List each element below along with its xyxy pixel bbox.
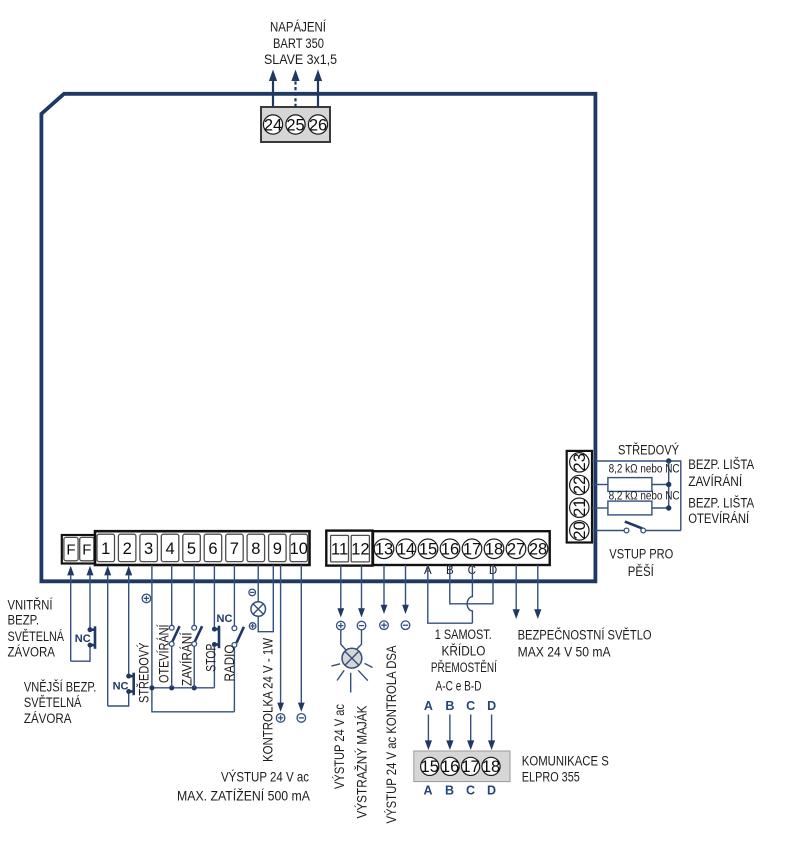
svg-text:17: 17 bbox=[463, 541, 481, 559]
label NAPÁJENÍ BART 350 SLAVE 3x1,5 bbox=[264, 20, 337, 68]
svg-text:11: 11 bbox=[331, 541, 348, 559]
svg-text:ZAVÍRÁNÍ: ZAVÍRÁNÍ bbox=[688, 474, 742, 489]
wire terminal 27 bezpečnostní světlo bbox=[513, 565, 520, 619]
svg-text:BART 350: BART 350 bbox=[273, 36, 324, 51]
label VÝSTUP 24 V ac / MAX. ZATÍŽENÍ 500 mA bbox=[177, 769, 310, 803]
svg-text:NC: NC bbox=[75, 633, 91, 645]
svg-text:KŘÍDLO: KŘÍDLO bbox=[442, 644, 486, 659]
svg-text:RADIO: RADIO bbox=[222, 645, 237, 682]
svg-text:D: D bbox=[487, 699, 496, 713]
svg-text:ZÁVORA: ZÁVORA bbox=[24, 711, 72, 726]
svg-text:6: 6 bbox=[208, 540, 217, 558]
svg-text:KOMUNIKACE S: KOMUNIKACE S bbox=[522, 754, 609, 769]
svg-text:PŘEMOSTĚNÍ: PŘEMOSTĚNÍ bbox=[431, 660, 497, 675]
wire terminal 12 to maják minus bbox=[356, 566, 366, 651]
svg-text:3: 3 bbox=[144, 540, 153, 558]
terminal 25 bbox=[286, 115, 305, 134]
lamp výstražný maják bbox=[331, 648, 372, 692]
svg-text:VÝSTUP 24 V ac: VÝSTUP 24 V ac bbox=[221, 769, 309, 784]
svg-text:STŘEDOVÝ: STŘEDOVÝ bbox=[137, 643, 152, 704]
svg-text:KONTROLKA 24 V - 1W: KONTROLKA 24 V - 1W bbox=[260, 638, 275, 762]
svg-text:ELPRO 355: ELPRO 355 bbox=[522, 770, 580, 785]
svg-text:VÝSTUP 24 V ac KONTROLA DSA: VÝSTUP 24 V ac KONTROLA DSA bbox=[384, 646, 399, 824]
svg-text:MAX. ZATÍŽENÍ 500 mA: MAX. ZATÍŽENÍ 500 mA bbox=[177, 789, 310, 804]
wire loop bottom (vnější) bbox=[108, 694, 129, 706]
wire arrow D to elpro bbox=[488, 715, 495, 751]
power terminal block 24-26 bbox=[261, 107, 330, 142]
svg-text:VÝSTRAŽNÝ MAJÁK: VÝSTRAŽNÝ MAJÁK bbox=[355, 706, 370, 819]
svg-text:18: 18 bbox=[482, 758, 500, 776]
lamp KONTROLKA 24V 1W bbox=[251, 602, 266, 617]
svg-text:17: 17 bbox=[461, 758, 479, 776]
svg-text:NAPÁJENÍ: NAPÁJENÍ bbox=[270, 20, 326, 35]
svg-text:24: 24 bbox=[264, 116, 282, 134]
svg-text:27: 27 bbox=[507, 541, 525, 559]
svg-text:B: B bbox=[445, 784, 454, 798]
svg-text:C: C bbox=[466, 699, 475, 713]
svg-text:A: A bbox=[423, 784, 432, 798]
wire arrow C to elpro bbox=[467, 715, 474, 751]
svg-text:18: 18 bbox=[485, 541, 503, 559]
svg-text:16: 16 bbox=[441, 758, 459, 776]
svg-text:7: 7 bbox=[230, 540, 239, 558]
node labels A B C D (blue, above arrows) bbox=[424, 699, 496, 713]
svg-text:OTEVÍRÁNÍ: OTEVÍRÁNÍ bbox=[688, 511, 749, 526]
resistor 8,2 kOhm (otevírání) bbox=[592, 501, 671, 515]
svg-text:20: 20 bbox=[571, 521, 589, 539]
svg-text:C: C bbox=[466, 784, 475, 798]
svg-text:21: 21 bbox=[571, 499, 589, 517]
svg-text:SVĚTELNÁ: SVĚTELNÁ bbox=[8, 629, 65, 644]
wire F loop bottom bbox=[71, 648, 90, 662]
svg-text:VNITŘNÍ: VNITŘNÍ bbox=[8, 597, 53, 612]
svg-text:D: D bbox=[487, 784, 496, 798]
svg-text:10: 10 bbox=[290, 540, 308, 558]
label VNITŘNÍ BEZP. SVĚTELNÁ ZÁVORA bbox=[8, 597, 65, 659]
wire terminal 11 to maják plus bbox=[337, 566, 347, 651]
label VNĚJŠÍ BEZP. SVĚTELNÁ ZÁVORA bbox=[24, 679, 97, 726]
label BEZPEČNOSTNÍ SVĚTLO MAX 24 V 50 mA bbox=[518, 627, 652, 659]
label BEZP. LIŠTA OTEVÍRÁNÍ bbox=[688, 495, 754, 526]
plus node label on STŘEDOVÝ wire bbox=[142, 594, 151, 603]
svg-text:BEZP.: BEZP. bbox=[8, 613, 40, 628]
svg-text:STOP: STOP bbox=[203, 644, 218, 672]
svg-text:28: 28 bbox=[529, 541, 547, 559]
plus node label below kontrolka bbox=[249, 623, 256, 630]
wire terminal 9 output plus bbox=[276, 565, 285, 722]
switch vstup pro pěší (terminal 20) bbox=[592, 522, 681, 533]
wire from terminal 24 to supply (arrow up) bbox=[269, 70, 277, 108]
terminal 24 bbox=[263, 115, 282, 134]
svg-text:12: 12 bbox=[351, 541, 369, 559]
NC contact STOP (terminal 6) bbox=[212, 565, 219, 688]
svg-text:2: 2 bbox=[123, 540, 132, 558]
node junction on wire 23 bbox=[666, 458, 671, 463]
switch ZAVÍRÁNÍ (terminal 5) bbox=[192, 565, 202, 688]
svg-text:23: 23 bbox=[571, 453, 589, 471]
wire terminal 23 to common node bbox=[592, 461, 681, 531]
NC contact vnitřní světelná závora bbox=[88, 626, 96, 649]
terminal block 13-18, 27, 28 bbox=[373, 531, 550, 565]
svg-text:ZAVÍRÁNÍ: ZAVÍRÁNÍ bbox=[179, 632, 194, 686]
svg-text:SLAVE 3x1,5: SLAVE 3x1,5 bbox=[264, 52, 337, 67]
svg-text:22: 22 bbox=[571, 476, 589, 494]
common vertical net bbox=[668, 461, 670, 508]
wire terminal 28 bezpečnostní světlo bbox=[534, 565, 541, 619]
wire terminal 14 kontrola minus bbox=[401, 565, 410, 630]
svg-text:VÝSTUP 24 V ac: VÝSTUP 24 V ac bbox=[332, 704, 347, 789]
label BEZP. LIŠTA ZAVÍRÁNÍ bbox=[688, 457, 754, 489]
svg-text:BEZP. LIŠTA: BEZP. LIŠTA bbox=[688, 457, 754, 472]
svg-text:26: 26 bbox=[309, 116, 327, 134]
svg-text:5: 5 bbox=[187, 540, 196, 558]
wire terminal 1 (arrow up into terminal) bbox=[104, 566, 111, 706]
svg-text:OTEVÍRÁNÍ: OTEVÍRÁNÍ bbox=[157, 624, 172, 683]
wire terminal F1 (arrow up into terminal) bbox=[67, 566, 74, 661]
label KOMUNIKACE S ELPRO 355 bbox=[522, 754, 609, 785]
svg-text:ZÁVORA: ZÁVORA bbox=[8, 644, 56, 659]
terminal block F F bbox=[62, 535, 95, 564]
svg-text:1: 1 bbox=[101, 540, 110, 558]
terminal block 1-10 bbox=[95, 531, 310, 565]
wire terminal 10 output minus bbox=[297, 565, 306, 722]
svg-text:F: F bbox=[66, 541, 75, 558]
svg-text:NC: NC bbox=[113, 680, 129, 692]
elpro terminal block 15-18 bbox=[414, 751, 510, 782]
label VSTUP PRO PĚŠÍ bbox=[609, 547, 673, 580]
wire terminal 13 kontrola plus bbox=[380, 565, 389, 630]
wire terminal 2 down to NC contact bbox=[125, 566, 132, 674]
wire A to C (přemostění) bbox=[428, 565, 473, 623]
svg-text:15: 15 bbox=[419, 541, 437, 559]
svg-text:BEZP. LIŠTA: BEZP. LIŠTA bbox=[688, 495, 754, 510]
svg-text:B: B bbox=[445, 699, 454, 713]
terminal block 11-12 bbox=[326, 531, 372, 566]
wire from terminal 25 to supply (dashed, arrow up) bbox=[291, 70, 299, 108]
svg-text:BEZPEČNOSTNÍ SVĚTLO: BEZPEČNOSTNÍ SVĚTLO bbox=[518, 627, 652, 642]
common bus to switches bbox=[152, 687, 215, 689]
junction dots on common bus bbox=[149, 685, 154, 690]
wire terminal 3 STŘEDOVÝ common bbox=[152, 565, 235, 712]
node labels A B C D (blue, below elpro block) bbox=[423, 784, 496, 798]
terminal 26 bbox=[308, 115, 327, 134]
svg-text:8,2 kΩ nebo NC: 8,2 kΩ nebo NC bbox=[609, 464, 680, 476]
svg-text:VSTUP PRO: VSTUP PRO bbox=[609, 547, 673, 562]
wire C with hop over B-D bbox=[467, 565, 472, 623]
wire arrow A to elpro bbox=[425, 715, 432, 751]
resistor 8,2 kOhm (zavírání) bbox=[592, 478, 671, 492]
svg-text:15: 15 bbox=[421, 758, 439, 776]
svg-text:NC: NC bbox=[217, 613, 233, 625]
wire arrow B to elpro bbox=[446, 715, 453, 751]
svg-text:A: A bbox=[424, 699, 433, 713]
svg-text:A-C e B-D: A-C e B-D bbox=[436, 679, 482, 694]
svg-text:MAX 24 V 50 mA: MAX 24 V 50 mA bbox=[518, 644, 611, 659]
switch OTEVÍRÁNÍ (terminal 4) bbox=[169, 565, 179, 688]
svg-text:9: 9 bbox=[273, 540, 282, 558]
svg-text:SVĚTELNÁ: SVĚTELNÁ bbox=[24, 695, 82, 710]
svg-text:1 SAMOST.: 1 SAMOST. bbox=[435, 627, 492, 642]
svg-text:VNĚJŠÍ BEZP.: VNĚJŠÍ BEZP. bbox=[24, 679, 97, 694]
NC contact vnější světelná závora bbox=[126, 673, 134, 696]
switch RADIO (terminal 7) bbox=[232, 565, 244, 712]
svg-text:F: F bbox=[82, 541, 91, 558]
node labels A B C D above board edge bbox=[424, 565, 497, 577]
svg-text:PĚŠÍ: PĚŠÍ bbox=[628, 564, 654, 579]
svg-text:25: 25 bbox=[286, 116, 304, 134]
svg-text:14: 14 bbox=[397, 541, 415, 559]
wire B to D (přemostění) bbox=[450, 565, 493, 604]
svg-text:16: 16 bbox=[441, 541, 459, 559]
svg-text:13: 13 bbox=[375, 541, 393, 559]
wire terminal 8 to kontrolka bbox=[257, 565, 259, 602]
svg-text:8: 8 bbox=[251, 540, 260, 558]
wire terminal F2 down to NC contact bbox=[87, 566, 94, 628]
controller board outline bbox=[41, 94, 595, 582]
svg-text:4: 4 bbox=[166, 540, 175, 558]
terminal block 20-23 (side) bbox=[567, 451, 592, 543]
wire kontrolka return to terminal 9 bbox=[258, 565, 273, 632]
wire from terminal 26 to supply (arrow up) bbox=[314, 70, 322, 108]
label 1 SAMOST. KŘÍDLO PŘEMOSTĚNÍ A-C e B-D bbox=[431, 627, 497, 694]
minus node label at kontrolka bbox=[249, 589, 256, 596]
svg-text:STŘEDOVÝ: STŘEDOVÝ bbox=[618, 443, 679, 458]
